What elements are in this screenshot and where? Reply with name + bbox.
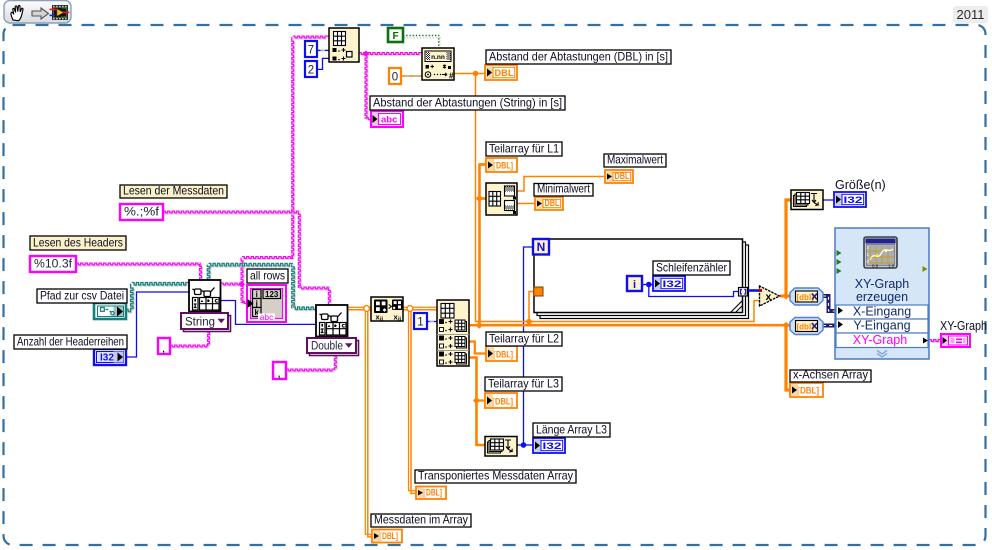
svg-text:DBL]: DBL] [495, 397, 513, 408]
svg-text:abc: abc [381, 115, 397, 126]
svg-text:DBL: DBL [615, 171, 630, 182]
svg-text:F: F [392, 31, 398, 42]
svg-text:XY-Graph: XY-Graph [853, 333, 907, 347]
wire max to Maximalwert [517, 177, 605, 192]
svg-text:0.0: 0.0 [872, 264, 879, 269]
wire constant 7 to subset [317, 49, 329, 51]
label Minimalwert [534, 182, 593, 197]
svg-text:Abstand der Abtastungen (DBL): Abstand der Abtastungen (DBL) in [s] [489, 50, 668, 64]
cluster indicator all rows [247, 285, 286, 322]
constant format data [120, 204, 163, 220]
constant comma 2 [273, 362, 286, 380]
wire path node1 to node2 [207, 263, 317, 310]
wire scalar branch to loop tunnel [526, 292, 534, 325]
svg-text:Teilarray für L2: Teilarray für L2 [489, 332, 559, 346]
wire header string: node1 out to subset node [221, 36, 330, 286]
wire subset out branch to abc indicator [363, 51, 372, 121]
loop input tunnel orange [534, 287, 543, 296]
indicator Abstand DBL [485, 65, 517, 80]
wire 0 constant to n.nn [401, 75, 422, 77]
wire dynamic bundle A to X-Eingang [823, 296, 836, 311]
indicator Teilarray L2 [486, 346, 517, 361]
wire 2D branch down to Messdaten [364, 306, 372, 537]
wire branch to all-rows cluster [239, 281, 249, 304]
wire XY-Graph output [929, 340, 942, 343]
svg-text:N: N [537, 240, 546, 254]
svg-text:x-Achsen Array: x-Achsen Array [793, 368, 868, 382]
indicator Schleifenzaehler I32 [653, 276, 685, 291]
wire delimiter comma to node2 [286, 336, 337, 372]
svg-text:DBL: DBL [545, 198, 560, 209]
wire multiply out to bundle A [780, 295, 790, 298]
wire index2 out to L2 DBL [469, 342, 486, 354]
svg-text:DBL]: DBL] [382, 531, 398, 542]
label Teilarray L2 [486, 332, 562, 347]
svg-text:Lesen des Headers: Lesen des Headers [33, 236, 123, 250]
wire Abstand scalar vertical to multiply [473, 71, 760, 322]
node array size (L3) [485, 437, 517, 457]
svg-text:String: String [185, 317, 215, 329]
wire L3 branch to DBL [473, 397, 485, 404]
svg-text:Länge Array L3: Länge Array L3 [536, 423, 607, 437]
wire loop tunnel to multiply (I32 array) [748, 289, 760, 292]
svg-text:DBL: DBL [495, 68, 514, 79]
wire min to Minimalwert [517, 203, 535, 205]
node XY-Graph express VI [835, 228, 929, 359]
N count terminal [533, 239, 549, 255]
wire node1 L1 elbow [480, 163, 486, 166]
toolbar hand icon [11, 5, 23, 20]
indicator Minimalwert DBL [535, 197, 563, 210]
wire F constant to n.nn node [403, 36, 440, 50]
indicator Teilarray L3 [485, 393, 517, 408]
indicator Groesse I32 [834, 192, 866, 207]
free label Lesen des Headers [30, 236, 126, 251]
label Schleifenzaehler [653, 261, 730, 276]
svg-text:Lesen der Messdaten: Lesen der Messdaten [123, 184, 224, 198]
label Pfad zur csv Datei [37, 289, 127, 304]
node convert to dynamic A [790, 288, 823, 305]
loop output tunnel [739, 288, 748, 297]
indicator Laenge I32 [533, 438, 565, 453]
svg-text:123: 123 [265, 290, 279, 299]
path control Pfad zur csv Datei [94, 303, 126, 319]
wire 2D data transpose to index array [403, 307, 437, 310]
svg-text:DBL]: DBL] [800, 386, 819, 397]
label Maximalwert [604, 153, 666, 168]
svg-text:I32: I32 [663, 279, 682, 290]
node convert to dynamic B [790, 318, 823, 335]
label Teilarray L3 [485, 377, 562, 392]
svg-text:Pfad zur csv Datei: Pfad zur csv Datei [40, 289, 124, 303]
node array max and min [486, 183, 517, 215]
svg-text:XY-Graph: XY-Graph [940, 319, 987, 333]
wire array size2 to Groesse I32 [823, 199, 834, 201]
label x-Achsen Array [790, 368, 871, 383]
node index array [437, 300, 469, 366]
svg-text:0: 0 [392, 72, 398, 84]
node fract-exp string to number [422, 48, 454, 81]
svg-text:Y-Eingang: Y-Eingang [853, 319, 910, 333]
svg-text:DBL]: DBL] [426, 488, 442, 499]
wire path control to node1 [126, 282, 190, 313]
constant format header [30, 256, 76, 272]
constant comma 1 [158, 338, 170, 355]
label Laenge Array L3 [533, 423, 610, 438]
label Teilarray L1 [486, 142, 562, 157]
text XY-Graph [940, 319, 987, 333]
indicator Transponiertes [416, 487, 446, 500]
svg-text:XY-Graph: XY-Graph [855, 277, 909, 291]
svg-text:x: x [766, 291, 772, 303]
wire 1D array horizontal to bundle B [469, 322, 790, 329]
label Transponiertes Messdaten Array [415, 469, 576, 484]
indicator Messdaten [372, 530, 402, 543]
label Abstand DBL [486, 50, 671, 65]
toolbar run arrow icon [32, 8, 49, 19]
svg-text:I32: I32 [543, 441, 562, 452]
svg-text:Abstand der Abtastungen (Strin: Abstand der Abtastungen (String) in [s] [373, 96, 562, 110]
wire i terminal to loop tunnel [646, 282, 739, 297]
svg-text:ij: ij [380, 317, 384, 323]
node read spreadsheet (String) [189, 280, 221, 312]
wire index3 out to L3 trunk [469, 358, 485, 446]
svg-text:X-Eingang: X-Eingang [853, 305, 911, 319]
year 2011 badge [953, 6, 988, 23]
text Groesse(n) [835, 178, 886, 192]
label Messdaten im Array [371, 513, 471, 528]
wire trunk down to x-Achsen [782, 322, 790, 390]
svg-text:Double: Double [311, 341, 343, 353]
svg-text:Teilarray für L3: Teilarray für L3 [488, 377, 559, 391]
label Anzahl der Headerreihen [14, 335, 127, 350]
svg-text:ji: ji [397, 317, 402, 323]
svg-text:Transponiertes Messdaten Array: Transponiertes Messdaten Array [418, 469, 573, 483]
svg-text:j: j [255, 299, 258, 308]
i iteration terminal [627, 276, 642, 291]
svg-text:n.nn: n.nn [431, 54, 445, 61]
svg-text:Größe(n): Größe(n) [835, 178, 886, 192]
svg-text:Schleifenzähler: Schleifenzähler [656, 261, 727, 275]
wire trunk up to array size2 [782, 200, 791, 300]
svg-text:,: , [277, 365, 281, 380]
svg-text:#: # [449, 72, 454, 81]
label Abstand String [370, 96, 565, 111]
svg-text:Minimalwert: Minimalwert [537, 182, 591, 196]
wire delimiter comma to node1 [170, 311, 211, 348]
svg-text:Maximalwert: Maximalwert [607, 153, 664, 167]
node transpose 2D array [371, 297, 403, 323]
svg-text:2011: 2011 [957, 7, 985, 22]
svg-text:%.;%f: %.;%f [124, 207, 160, 219]
svg-text:Teilarray für L1: Teilarray für L1 [489, 142, 559, 156]
wire subset out to n.nn node [359, 53, 423, 56]
svg-text:1.0: 1.0 [888, 264, 895, 269]
I32 control Anzahl der Headerreihen [94, 349, 126, 365]
constant 7 [305, 41, 317, 57]
constant 0 [389, 68, 401, 84]
XY graph indicator [941, 334, 970, 347]
ring constant Double [307, 338, 359, 356]
wire format %10.3f to node1 [76, 263, 203, 281]
wire array size to Laenge I32 [517, 442, 533, 448]
free label Lesen der Messdaten [120, 184, 227, 199]
svg-text:I32: I32 [100, 353, 114, 364]
node read spreadsheet (Double) [316, 305, 348, 337]
svg-text:i: i [256, 290, 258, 299]
wire constant 2 to subset [317, 58, 329, 69]
for loop frame [534, 239, 749, 319]
indicator x-Achsen Array [790, 383, 823, 397]
wire 2D data node2 to transpose [347, 307, 371, 310]
svg-text:i: i [633, 279, 636, 291]
constant 2 [305, 61, 317, 77]
svg-text:Anzahl der Headerreihen: Anzahl der Headerreihen [17, 335, 124, 349]
svg-text:1: 1 [417, 317, 423, 329]
ring constant String [181, 313, 231, 332]
label all rows [247, 269, 288, 284]
indicator Teilarray L1 [486, 158, 517, 172]
node string subset [329, 28, 359, 62]
wire constant 1 to index array [427, 321, 437, 323]
indicator Maximalwert DBL [605, 170, 633, 183]
wire 2D branch down to Transponiertes [407, 306, 416, 494]
wire node1 to node2 header count [221, 301, 316, 325]
wire format %.;%f to node2 [163, 211, 331, 306]
wire array size to N terminal [524, 247, 535, 445]
wire dynamic bundle B to Y-Eingang [823, 324, 836, 328]
svg-text:I32: I32 [844, 195, 863, 206]
toolbar tab [4, 1, 71, 24]
svg-text:all rows: all rows [250, 269, 285, 283]
svg-text:Messdaten im Array: Messdaten im Array [374, 513, 468, 527]
constant F [388, 28, 403, 42]
svg-text:7: 7 [308, 45, 314, 57]
node multiply [759, 286, 780, 306]
node array size (x) [791, 190, 823, 210]
svg-text:abc: abc [260, 312, 274, 322]
svg-text:DBL]: DBL] [496, 161, 513, 172]
svg-text:,: , [162, 340, 166, 355]
svg-text:DBL]: DBL] [496, 350, 513, 361]
svg-text:2: 2 [308, 65, 314, 77]
wire I32 control to node1 [126, 292, 189, 357]
svg-text:%10.3f: %10.3f [34, 259, 73, 271]
wire i terminal to I32 [642, 284, 653, 286]
wire n.nn out to Abstand DBL [454, 73, 485, 75]
wire L1 array trunk [476, 165, 486, 326]
constant 1 [414, 313, 427, 329]
svg-text:erzeugen: erzeugen [856, 290, 908, 304]
string indicator Abstand String [371, 111, 403, 127]
toolbar VI icon [50, 5, 70, 20]
